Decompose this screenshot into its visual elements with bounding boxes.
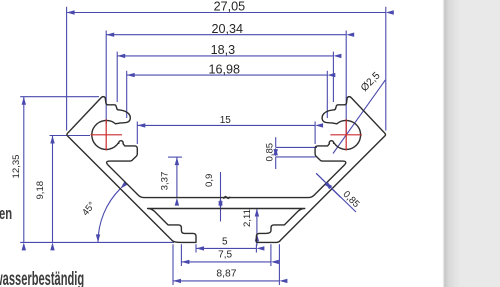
- dim 18,3: [117, 43, 333, 102]
- svg-text:16,98: 16,98: [209, 63, 241, 77]
- svg-text:12,35: 12,35: [11, 154, 22, 178]
- svg-text:3,37: 3,37: [159, 172, 170, 191]
- dim 0,85 vertical (cover ledge): [264, 137, 317, 169]
- dim 8,87: [173, 244, 279, 285]
- dim 3,37: [159, 157, 182, 198]
- dim 27,05: [67, 0, 386, 131]
- svg-text:0,85: 0,85: [264, 143, 275, 162]
- page text fragment bottom: wasserbestaendig: [0, 269, 84, 287]
- break mark: [224, 196, 230, 199]
- svg-text:15: 15: [220, 115, 232, 126]
- svg-text:7,5: 7,5: [218, 250, 232, 261]
- svg-text:20,34: 20,34: [211, 22, 243, 36]
- dim 9,18: [35, 136, 90, 243]
- svg-text:0,9: 0,9: [204, 174, 215, 187]
- dim 16,98: [127, 63, 328, 118]
- dim 20,34: [106, 22, 346, 134]
- dim 7,5: [181, 244, 271, 266]
- dim diameter 2,5 leader: [333, 70, 385, 153]
- dim 5: [196, 236, 256, 252]
- svg-text:9,18: 9,18: [35, 181, 46, 200]
- svg-text:8,87: 8,87: [216, 269, 236, 280]
- svg-text:27,05: 27,05: [214, 0, 246, 14]
- dim 2,11: [242, 209, 257, 246]
- svg-text:2,11: 2,11: [242, 209, 253, 227]
- dim 45 deg arc: [80, 189, 120, 243]
- dim 15: [137, 115, 315, 144]
- center mark right hole: [330, 119, 362, 150]
- dim 0,85 wall thickness: [316, 173, 361, 212]
- page text fragment left: [0, 204, 12, 224]
- svg-text:5: 5: [222, 236, 228, 247]
- center mark left hole: [91, 119, 123, 150]
- dim 0,9: [204, 172, 220, 222]
- sidebar: [0, 0, 1, 1]
- dim 12,35: [11, 97, 174, 243]
- svg-text:18,3: 18,3: [211, 43, 236, 57]
- profile outline: [67, 97, 386, 243]
